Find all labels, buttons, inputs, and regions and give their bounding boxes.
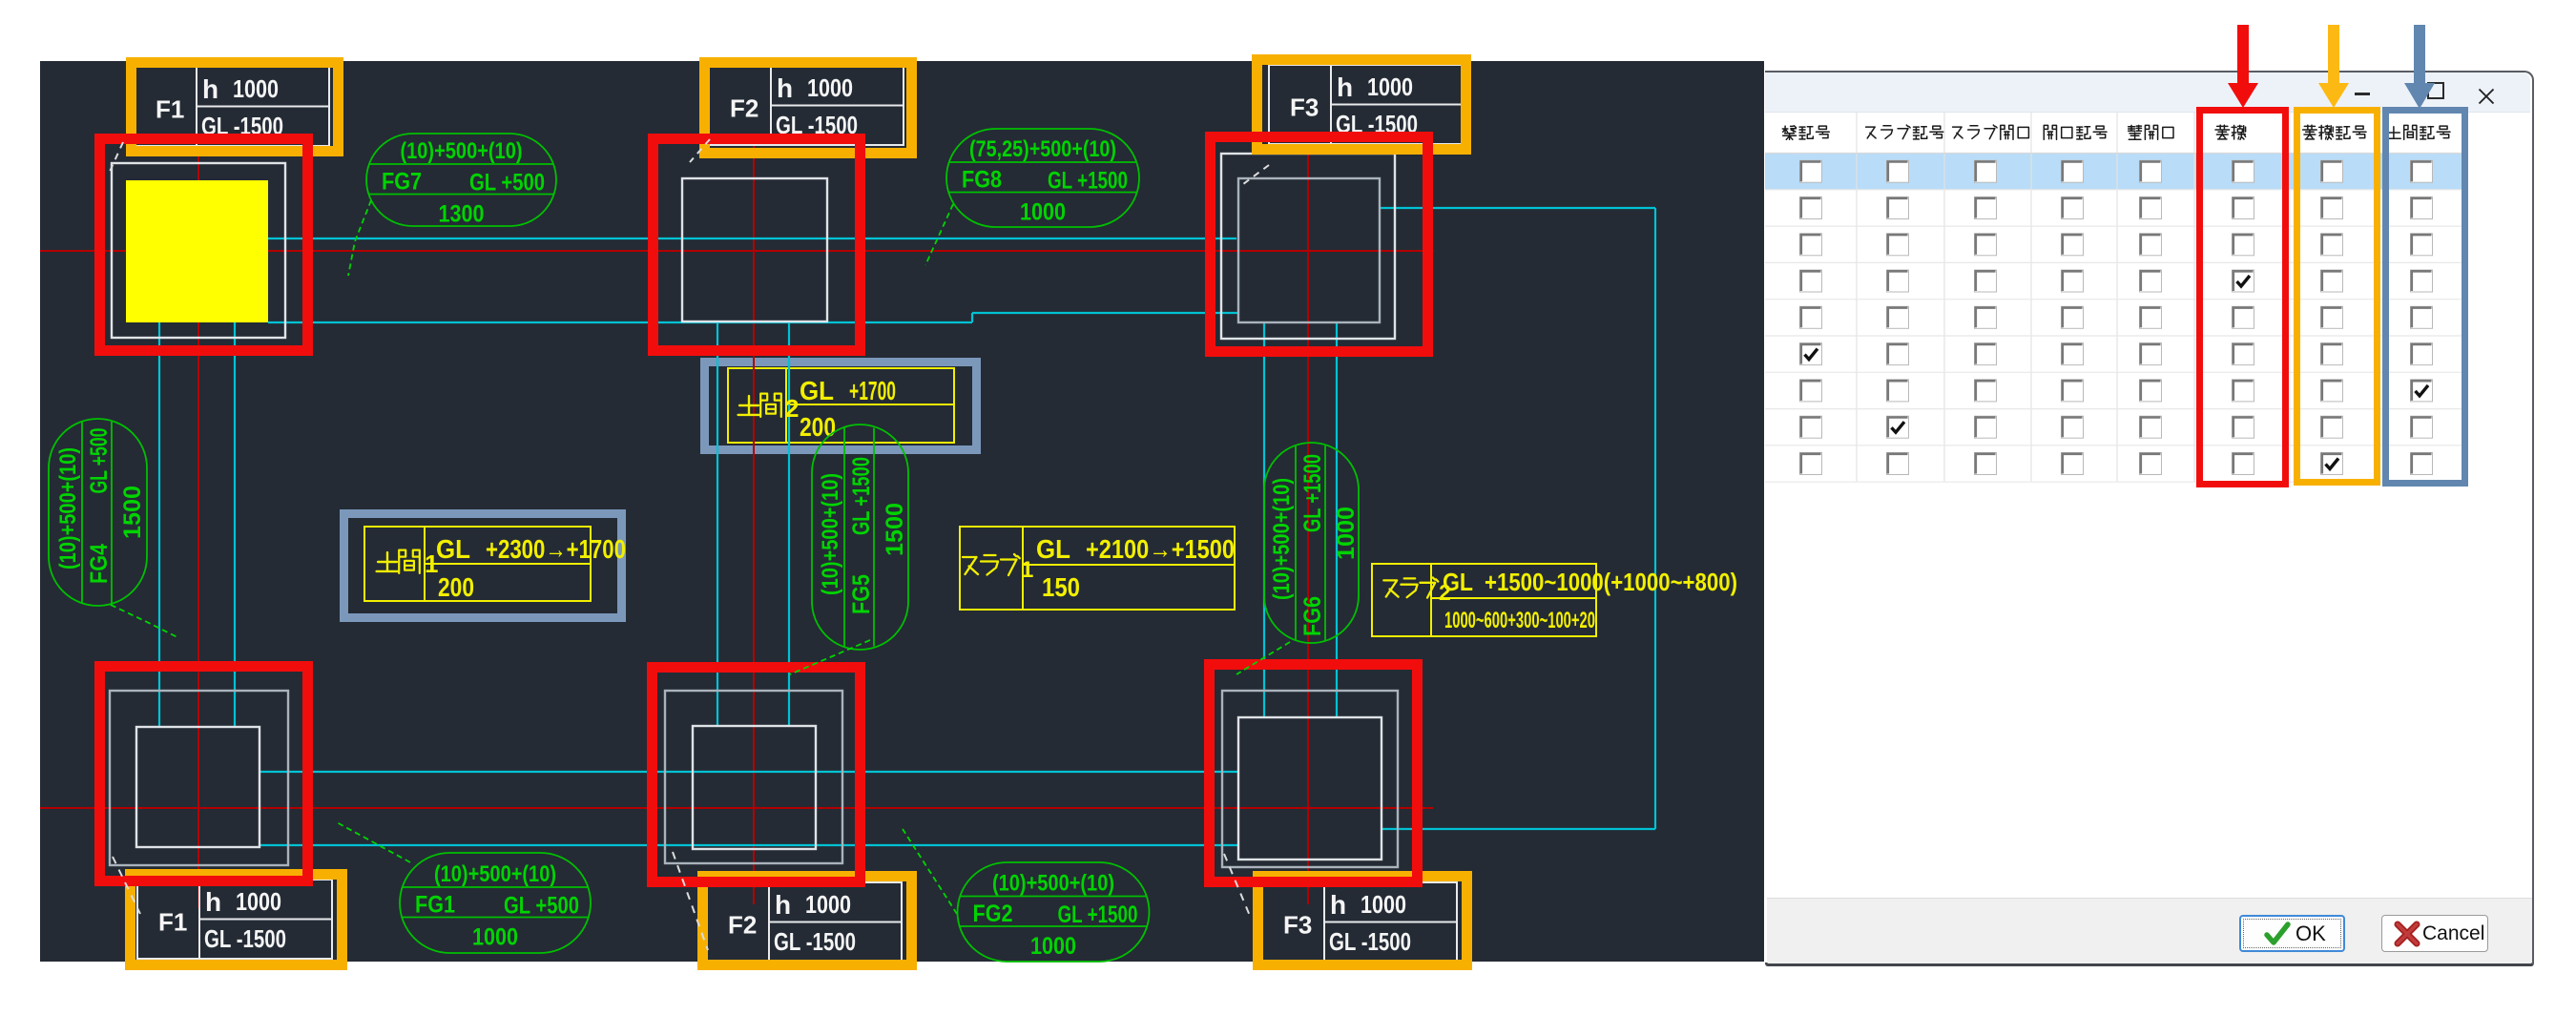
- orange highlight frame F3 bottom: [1258, 877, 1467, 965]
- OK button: [2239, 915, 2345, 952]
- svg-text:1000: 1000: [1020, 199, 1066, 226]
- red axis line vertical F2: [753, 145, 755, 904]
- svg-text:GL: GL: [800, 376, 834, 405]
- svg-text:GL: GL: [436, 534, 470, 564]
- svg-text:1000: 1000: [233, 74, 279, 103]
- svg-text:GL +500: GL +500: [504, 893, 579, 920]
- CAD canvas background: [40, 61, 1764, 962]
- leader FG6: [1236, 642, 1290, 674]
- cyan beam line lower 2: [260, 844, 1237, 846]
- cyan beam line top: [268, 238, 1236, 239]
- svg-text:1000: 1000: [805, 890, 851, 919]
- svg-text:GL +500: GL +500: [86, 428, 113, 494]
- footing F1 bottom inner: [136, 727, 260, 847]
- red highlight frame F3 top: [1211, 137, 1428, 352]
- svg-text:1000: 1000: [1361, 890, 1406, 919]
- red highlight frame F3 bottom: [1210, 665, 1418, 882]
- balloon FG8: [946, 129, 1139, 227]
- leader FG7: [348, 200, 371, 276]
- svg-text:GL +1500: GL +1500: [1048, 168, 1128, 195]
- blue arrow: [2403, 25, 2436, 109]
- orange highlight frame F3 top: [1257, 60, 1466, 150]
- close icon: [2478, 88, 2495, 105]
- orange highlight frame F1 bottom: [131, 875, 343, 965]
- red axis line horizontal bottom: [40, 807, 1433, 809]
- svg-text:1500: 1500: [119, 486, 146, 539]
- table column separators: [1856, 112, 1858, 482]
- Cancel button: [2381, 915, 2488, 952]
- footing F1 top outer: [112, 163, 285, 338]
- svg-text:F2: F2: [728, 911, 757, 940]
- dialog title bar: [1765, 72, 2530, 112]
- svg-text:+2300→+1700: +2300→+1700: [486, 534, 626, 564]
- selected row highlight: [1765, 154, 2465, 190]
- orange column highlight 基礎記号: [2294, 107, 2380, 486]
- white corner tick F3 top: [1243, 165, 1269, 184]
- svg-text:1000~600+300~100+20: 1000~600+300~100+20: [1444, 608, 1595, 633]
- dialog bottom bar: [1767, 898, 2532, 963]
- svg-text:FG1: FG1: [415, 892, 455, 919]
- svg-text:1000: 1000: [807, 73, 853, 102]
- svg-text:+1700: +1700: [849, 376, 896, 405]
- svg-text:GL -1500: GL -1500: [774, 927, 856, 956]
- svg-text:(10)+500+(10): (10)+500+(10): [1269, 478, 1295, 600]
- svg-text:FG6: FG6: [1299, 596, 1326, 636]
- maximize icon: [2427, 82, 2444, 99]
- red axis line vertical F3: [1307, 145, 1309, 904]
- column header texts: [1782, 126, 1796, 140]
- svg-text:1000: 1000: [1367, 72, 1413, 101]
- svg-text:(75,25)+500+(10): (75,25)+500+(10): [969, 136, 1116, 162]
- svg-text:FG2: FG2: [973, 901, 1013, 927]
- balloon FG4: [49, 419, 147, 606]
- white corner tick F2 bottom: [673, 852, 708, 950]
- blue highlight box 土間1: [344, 514, 622, 618]
- balloon FG6: [1264, 443, 1359, 643]
- svg-text:GL +1500: GL +1500: [1299, 454, 1326, 532]
- 土間1 text: [377, 552, 399, 571]
- svg-text:2: 2: [785, 394, 799, 423]
- svg-text:GL +1500: GL +1500: [1058, 901, 1138, 928]
- blue highlight box 土間2: [705, 362, 977, 450]
- red highlight frame F1 top: [100, 139, 308, 351]
- red axis line horizontal top: [40, 250, 1434, 252]
- label table F2 bottom: [707, 882, 902, 962]
- スラブ2 text: [1383, 580, 1398, 596]
- leader FG1: [335, 821, 410, 862]
- svg-text:1000: 1000: [1333, 507, 1360, 560]
- svg-text:GL: GL: [1443, 568, 1473, 596]
- svg-text:200: 200: [800, 412, 836, 442]
- balloon FG5: [812, 425, 908, 650]
- cyan grid verticals F3: [1263, 322, 1265, 717]
- footing F3 bottom outer: [1222, 691, 1398, 867]
- svg-text:FG7: FG7: [382, 169, 422, 196]
- yellow table スラブ2: [1372, 564, 1596, 636]
- cyan grid verticals F2: [717, 321, 718, 726]
- orange highlight frame F1 top: [132, 63, 339, 152]
- svg-text:(10)+500+(10): (10)+500+(10): [55, 447, 81, 570]
- red highlight frame F2 bottom: [653, 668, 861, 882]
- svg-text:1000: 1000: [236, 887, 281, 916]
- orange highlight frame F2 top: [705, 63, 912, 154]
- cyan beam line lower 1: [260, 771, 1238, 773]
- svg-text:h: h: [777, 73, 793, 103]
- red axis line vertical F1: [197, 145, 199, 908]
- cyan stepped line left: [268, 321, 972, 323]
- orange highlight frame F2 bottom: [703, 877, 912, 965]
- white corner tick F1 bottom: [113, 857, 140, 914]
- svg-text:FG4: FG4: [86, 544, 113, 584]
- table row separators: [1765, 112, 2530, 114]
- red highlight frame F2 top: [654, 139, 861, 351]
- svg-text:(10)+500+(10): (10)+500+(10): [434, 861, 556, 887]
- yellow table 土間1: [364, 527, 591, 601]
- svg-text:+2100→+1500: +2100→+1500: [1086, 534, 1235, 564]
- svg-text:(10)+500+(10): (10)+500+(10): [992, 871, 1114, 897]
- footing F2 top: [682, 178, 827, 321]
- leader FG5: [790, 640, 870, 674]
- svg-text:h: h: [775, 890, 791, 920]
- footing F1 top yellow pad: [126, 180, 268, 322]
- svg-text:1: 1: [1021, 557, 1033, 583]
- balloon FG1: [400, 853, 591, 953]
- svg-text:1500: 1500: [882, 503, 908, 556]
- svg-text:GL +1500: GL +1500: [848, 457, 875, 535]
- blue column highlight 土間記号: [2382, 107, 2468, 487]
- svg-text:GL +500: GL +500: [469, 170, 545, 197]
- svg-text:F3: F3: [1290, 93, 1319, 122]
- label table F1 top: [135, 67, 329, 146]
- red column highlight 基礎: [2196, 107, 2289, 487]
- svg-text:GL -1500: GL -1500: [204, 924, 286, 953]
- svg-text:h: h: [1330, 890, 1346, 920]
- leader FG8: [925, 204, 953, 265]
- footing F2 bottom inner: [693, 726, 816, 849]
- svg-text:+1500~1000(+1000~+800): +1500~1000(+1000~+800): [1485, 568, 1737, 596]
- yellow table 土間2: [728, 368, 954, 443]
- cyan stepped line right: [972, 312, 1238, 314]
- footing F1 bottom outer: [110, 691, 288, 865]
- white corner tick F2 top: [690, 139, 710, 162]
- dialog window: [1765, 71, 2534, 966]
- label table F3 bottom: [1262, 882, 1457, 962]
- white corner tick F3 bottom: [1224, 854, 1250, 916]
- balloon FG2: [958, 862, 1150, 962]
- svg-text:1000: 1000: [1030, 933, 1076, 960]
- footing F3 top outer: [1221, 154, 1395, 339]
- svg-text:h: h: [205, 887, 221, 917]
- yellow table スラブ1: [960, 527, 1235, 610]
- svg-text:(10)+500+(10): (10)+500+(10): [818, 473, 843, 595]
- svg-text:FG5: FG5: [848, 574, 875, 614]
- svg-text:F3: F3: [1283, 911, 1312, 940]
- label table F3 top: [1269, 65, 1464, 144]
- svg-text:1000: 1000: [472, 924, 518, 951]
- 土間2 text: [738, 396, 760, 415]
- svg-text:h: h: [1337, 72, 1353, 102]
- leader FG4: [111, 605, 177, 637]
- svg-text:GL: GL: [1036, 534, 1070, 564]
- red arrow: [2227, 25, 2259, 108]
- cyan grid verticals F1: [158, 322, 160, 727]
- svg-text:F1: F1: [156, 95, 184, 124]
- svg-text:200: 200: [438, 572, 474, 602]
- svg-text:F2: F2: [730, 94, 758, 123]
- leader FG2: [903, 829, 957, 914]
- スラブ1 text: [963, 557, 978, 574]
- svg-text:FG8: FG8: [962, 167, 1002, 194]
- cyan step vertical: [971, 313, 973, 322]
- svg-text:GL -1500: GL -1500: [1329, 927, 1411, 956]
- red highlight frame F1 bottom: [100, 667, 308, 881]
- minimize icon: [2355, 93, 2370, 95]
- footing F3 bottom inner: [1238, 717, 1381, 860]
- balloon FG7: [366, 134, 556, 226]
- svg-text:1300: 1300: [439, 201, 485, 228]
- svg-text:h: h: [202, 74, 218, 104]
- footing F3 top inner: [1238, 178, 1380, 322]
- svg-text:F1: F1: [158, 908, 187, 937]
- svg-text:(10)+500+(10): (10)+500+(10): [401, 138, 523, 164]
- label table F1 bottom: [137, 880, 332, 959]
- label table F2 top: [709, 66, 904, 145]
- white corner tick F1 top: [109, 142, 123, 174]
- footing F2 bottom outer: [665, 691, 842, 863]
- cyan beam line top right: [1380, 207, 1655, 209]
- svg-text:150: 150: [1042, 572, 1080, 602]
- orange arrow: [2317, 25, 2350, 108]
- checkboxes: [1800, 160, 1822, 182]
- cyan vertical right: [1654, 208, 1656, 829]
- cyan beam line bottom right segment: [1381, 828, 1655, 830]
